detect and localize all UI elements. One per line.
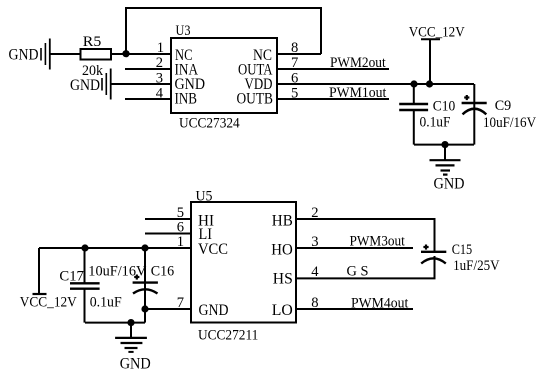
wire U3 pin 8 to loop: [277, 53, 321, 55]
svg-text:HO: HO: [271, 241, 293, 258]
wire capacitor bottom rail: [414, 144, 474, 146]
svg-text:GND: GND: [434, 174, 465, 192]
svg-text:UCC27324: UCC27324: [179, 116, 240, 132]
IC U5 UCC27211 body: [191, 188, 296, 343]
svg-text:LO: LO: [272, 302, 293, 319]
svg-text:7: 7: [177, 295, 184, 311]
junction bottom rail / ground: [127, 319, 134, 326]
svg-text:PWM3out: PWM3out: [350, 234, 406, 250]
junction VDD rail / VCC wire: [426, 80, 433, 87]
ground earth symbol top right: [430, 145, 465, 193]
svg-text:GND: GND: [9, 46, 39, 64]
svg-text:VCC: VCC: [198, 241, 228, 258]
svg-text:1: 1: [157, 40, 164, 56]
wire U5 pin 5 stub: [145, 218, 191, 220]
svg-text:INB: INB: [175, 91, 198, 108]
svg-text:VCC_12V: VCC_12V: [20, 294, 77, 310]
wire R5 to U3 pin 1: [111, 53, 171, 55]
junction C16 / pin 7 wire: [141, 305, 148, 312]
svg-text:0.1uF: 0.1uF: [420, 114, 451, 130]
junction VDD rail / C10: [410, 80, 417, 87]
svg-text:GND: GND: [120, 354, 151, 372]
svg-text:PWM1out: PWM1out: [329, 85, 387, 101]
wire NC loop from pin 1 node to pin 8: [126, 8, 321, 54]
svg-text:C16: C16: [151, 264, 175, 280]
svg-text:1uF/25V: 1uF/25V: [453, 258, 500, 274]
svg-text:C9: C9: [495, 98, 512, 114]
wire U3 pin 2 stub: [125, 68, 171, 70]
wire U5 pin 3 output: [296, 247, 413, 249]
svg-text:U3: U3: [176, 23, 191, 39]
svg-text:R5: R5: [83, 34, 102, 50]
wire U5 pin 6 stub: [145, 233, 191, 235]
svg-text:GND: GND: [70, 76, 100, 94]
svg-text:U5: U5: [196, 188, 213, 204]
wire U5 pin 1 VCC rail: [39, 247, 191, 249]
wire U5 pin 8 output: [296, 308, 413, 310]
svg-text:OUTB: OUTB: [237, 91, 274, 108]
svg-text:10uF/16V: 10uF/16V: [88, 264, 146, 280]
junction bottom rail / ground: [441, 141, 448, 148]
svg-text:C17: C17: [59, 269, 84, 285]
svg-text:UCC27211: UCC27211: [198, 328, 258, 344]
svg-text:HS: HS: [273, 271, 293, 288]
resistor R5 20k: [81, 34, 112, 79]
svg-text:2: 2: [156, 55, 163, 71]
wire GND to U3 pin 3: [111, 83, 171, 85]
wire GND to R5: [50, 53, 80, 55]
capacitor C16 polarized: [133, 248, 158, 323]
power VCC_12V top: [409, 25, 465, 84]
svg-text:1: 1: [177, 234, 184, 250]
power VCC_12V bottom left: [20, 248, 77, 310]
wire U3 pin 5 output: [277, 98, 389, 100]
IC U3 UCC27324 body: [171, 23, 277, 132]
svg-text:0.1uF: 0.1uF: [90, 294, 122, 310]
svg-text:G S: G S: [347, 263, 369, 279]
svg-text:C10: C10: [433, 98, 456, 114]
capacitor C15 polarized: [421, 245, 446, 264]
ground earth symbol bottom: [115, 323, 151, 373]
svg-text:HB: HB: [272, 213, 293, 230]
svg-text:PWM4out: PWM4out: [351, 295, 409, 311]
junction VCC rail / C16: [141, 244, 148, 251]
wire U5 pin 4 to C15 bottom: [296, 256, 435, 278]
wire U3 pin 7 output: [277, 68, 389, 70]
wire U3 pin 4 stub: [125, 98, 171, 100]
wire VDD rail corner down to C9: [473, 84, 475, 103]
wire U3 pin 6 VDD rail: [277, 83, 474, 85]
capacitor C9 polarized: [462, 95, 487, 145]
ground GND at U3 pin 3: [70, 69, 111, 100]
wire U5 pin 2 to C15 top: [296, 219, 435, 252]
svg-text:4: 4: [156, 85, 164, 101]
svg-text:3: 3: [156, 70, 163, 86]
svg-text:PWM2out: PWM2out: [330, 55, 386, 71]
ground GND at R5 input: [9, 39, 50, 70]
svg-text:C15: C15: [452, 242, 473, 258]
capacitor C10: [399, 84, 428, 145]
junction node pin1/loop: [122, 50, 129, 57]
svg-text:GND: GND: [199, 302, 229, 319]
svg-text:10uF/16V: 10uF/16V: [483, 115, 536, 131]
svg-text:VCC_12V: VCC_12V: [409, 25, 465, 41]
wire U5 pin 7 GND: [145, 308, 191, 310]
wire bottom rail C17 to C16: [85, 322, 145, 324]
junction VCC rail / C17: [81, 244, 88, 251]
capacitor C17: [70, 248, 100, 323]
